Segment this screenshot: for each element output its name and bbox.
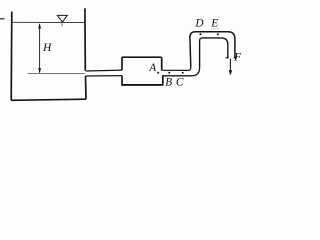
box left edge upper (121, 57, 123, 70)
water surface line (13, 21, 85, 23)
svg-text:F: F (233, 51, 241, 63)
pipe tank to box bottom edge (86, 75, 122, 77)
pipe box to bend bottom edge with outer corner (162, 68, 199, 76)
tank right wall (above pipe) (84, 8, 86, 70)
node B dot (168, 72, 170, 74)
pipe tank to box top edge (86, 69, 122, 72)
left edge tick (0, 18, 5, 20)
H dimension top arrowhead (38, 23, 41, 28)
node A dot (157, 72, 159, 74)
svg-text:E: E (210, 18, 218, 30)
H dimension line (39, 24, 41, 73)
box right edge lower (162, 75, 164, 85)
tank left wall (10, 12, 13, 101)
outlet right tick (234, 57, 237, 59)
node C dot (182, 72, 184, 74)
box right edge upper (161, 57, 163, 70)
svg-text:C: C (176, 77, 184, 89)
node D dot (199, 33, 201, 35)
node E dot (217, 33, 219, 35)
tick below triangle (61, 23, 63, 26)
svg-text:B: B (165, 77, 172, 89)
ghost scan line above pipe (211, 28, 220, 30)
svg-text:H: H (42, 42, 52, 54)
svg-text:D: D (194, 18, 203, 30)
tank bottom (11, 99, 86, 100)
U pipe inner edge (200, 38, 228, 68)
tank right wall (below pipe) (85, 76, 88, 99)
water level triangle symbol (57, 15, 67, 22)
U pipe outer edge (190, 32, 235, 68)
outflow arrowhead (229, 70, 233, 75)
outflow arrow line (229, 59, 231, 71)
box bottom edge (121, 84, 163, 86)
outlet left tick (225, 57, 228, 59)
box left edge lower (121, 76, 123, 85)
svg-text:A: A (148, 62, 156, 74)
H dimension bottom arrowhead (38, 68, 41, 73)
box top edge (122, 56, 161, 58)
pipe axis centerline (28, 72, 85, 74)
pipe box to bend top edge with inner corner (162, 67, 190, 70)
